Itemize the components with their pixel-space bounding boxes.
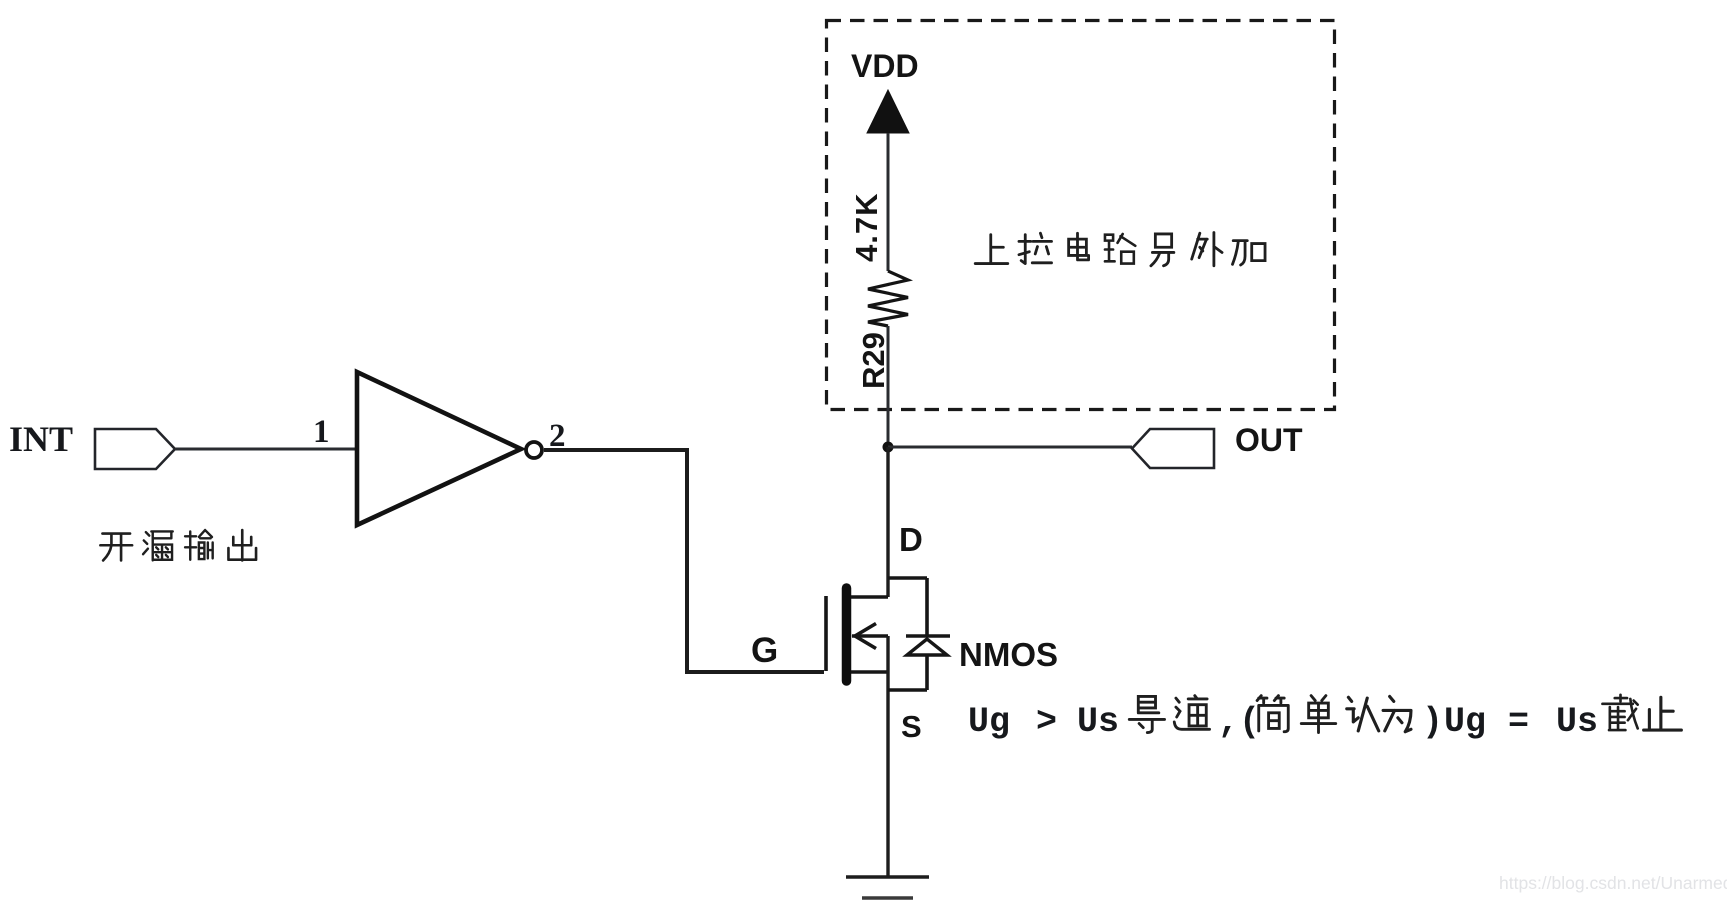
body arrow lead	[852, 634, 888, 638]
inverter U1 triangle	[357, 372, 521, 525]
node junction dot	[883, 442, 894, 453]
svg-text:D: D	[899, 521, 923, 558]
pull-up region dashed box	[827, 21, 1335, 410]
drain lead	[851, 595, 888, 599]
svg-text:OUT: OUT	[1235, 422, 1303, 458]
svg-text:=: =	[1508, 702, 1529, 742]
body diode branch bottom	[925, 655, 929, 690]
transistor Q1 NMOS	[826, 578, 950, 877]
wire node to drain	[886, 447, 889, 597]
ground	[846, 877, 929, 898]
arrowhead	[855, 624, 876, 649]
svg-text:1: 1	[313, 414, 330, 450]
source vertical	[886, 636, 889, 877]
svg-text:Us: Us	[1077, 702, 1119, 742]
svg-text:>: >	[1036, 702, 1057, 742]
port OUT	[1132, 422, 1303, 468]
channel bar	[842, 588, 852, 681]
wire resistor to output node	[887, 326, 890, 447]
inverter output bubble	[526, 442, 542, 458]
svg-text:Ug: Ug	[1444, 702, 1486, 742]
wire inverter output to gate (3 segments)	[544, 450, 824, 672]
annotation 开漏输出 (open-drain output)	[100, 530, 256, 560]
svg-text:https://blog.csdn.net/Unarmed_: https://blog.csdn.net/Unarmed_	[1499, 873, 1727, 894]
wire node to OUT port	[888, 446, 1132, 449]
source lead	[851, 670, 888, 674]
svg-text:Ug: Ug	[968, 702, 1010, 742]
svg-text:4.7K: 4.7K	[849, 193, 884, 262]
body diode branch top	[888, 576, 927, 580]
svg-text:VDD: VDD	[851, 48, 919, 84]
svg-text:,(: ,(	[1218, 702, 1260, 742]
resistor R29 zigzag	[868, 271, 908, 326]
svg-text:G: G	[751, 631, 778, 670]
svg-text:R29: R29	[856, 332, 891, 389]
wire VDD to resistor	[887, 133, 890, 271]
svg-text:): )	[1422, 702, 1443, 742]
svg-text:Us: Us	[1556, 702, 1598, 742]
body diode cathode bar	[906, 634, 950, 638]
annotation Ug > Us 导通,(简单认为) Ug = Us 截止	[968, 695, 1681, 742]
svg-text:NMOS: NMOS	[959, 636, 1058, 673]
svg-text:INT: INT	[9, 419, 73, 459]
gate bar	[824, 596, 828, 671]
wire INT to inverter input	[175, 448, 357, 451]
body diode triangle	[907, 639, 947, 655]
power VDD symbol	[851, 48, 919, 133]
svg-text:S: S	[901, 709, 922, 744]
port INT	[9, 419, 175, 469]
annotation 上拉电路另外加 (pull-up circuit added externally)	[975, 232, 1265, 265]
